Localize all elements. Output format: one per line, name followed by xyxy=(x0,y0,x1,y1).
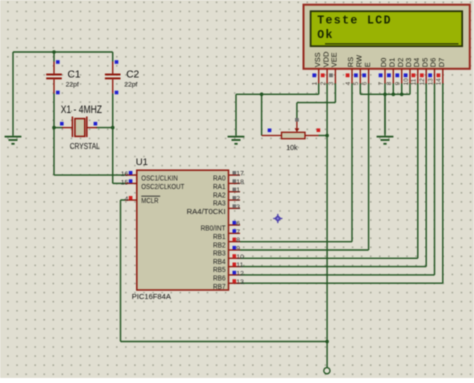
svg-text:2: 2 xyxy=(320,81,327,85)
svg-text:14: 14 xyxy=(436,78,443,85)
svg-text:4: 4 xyxy=(125,196,129,203)
svg-text:C2: C2 xyxy=(126,70,139,81)
svg-text:12: 12 xyxy=(419,78,426,85)
svg-text:10k: 10k xyxy=(286,145,298,152)
svg-text:22pf: 22pf xyxy=(124,82,137,89)
svg-text:7: 7 xyxy=(378,81,385,85)
svg-text:OSC2/CLKOUT: OSC2/CLKOUT xyxy=(141,182,185,191)
svg-text:1: 1 xyxy=(312,81,319,85)
svg-text:13: 13 xyxy=(427,78,434,85)
svg-text:8: 8 xyxy=(386,81,393,85)
svg-text:11: 11 xyxy=(411,78,418,85)
svg-text:C1: C1 xyxy=(68,70,81,81)
svg-text:4: 4 xyxy=(345,81,352,85)
svg-text:RB7: RB7 xyxy=(213,282,226,291)
svg-text:2: 2 xyxy=(236,196,240,203)
svg-text:7: 7 xyxy=(236,229,240,236)
svg-text:E: E xyxy=(363,62,372,67)
svg-text:12: 12 xyxy=(236,270,244,277)
svg-text:17: 17 xyxy=(236,171,244,178)
svg-text:D7: D7 xyxy=(437,58,446,67)
svg-text:VEE: VEE xyxy=(330,52,339,67)
svg-text:13: 13 xyxy=(236,279,244,286)
svg-text:3: 3 xyxy=(328,81,335,85)
svg-text:3: 3 xyxy=(236,204,240,211)
svg-text:18: 18 xyxy=(236,179,244,186)
svg-text:9: 9 xyxy=(236,245,240,252)
svg-text:11: 11 xyxy=(236,262,243,269)
svg-text:5: 5 xyxy=(353,81,360,85)
svg-text:Teste LCD: Teste LCD xyxy=(317,14,392,27)
svg-text:6: 6 xyxy=(361,81,368,85)
svg-text:6: 6 xyxy=(236,221,240,228)
svg-text:U1: U1 xyxy=(136,157,148,168)
svg-text:RA4/T0CKI: RA4/T0CKI xyxy=(187,207,226,216)
svg-text:PIC16F84A: PIC16F84A xyxy=(132,292,172,301)
svg-text:16: 16 xyxy=(121,171,129,178)
svg-text:8: 8 xyxy=(236,237,240,244)
svg-text:9: 9 xyxy=(395,81,402,85)
svg-text:CRYSTAL: CRYSTAL xyxy=(70,142,101,151)
svg-text:10: 10 xyxy=(236,254,244,261)
svg-text:15: 15 xyxy=(121,179,129,186)
svg-text:10: 10 xyxy=(403,78,410,85)
svg-text:22pf: 22pf xyxy=(66,82,79,89)
svg-text:X1 - 4MHZ: X1 - 4MHZ xyxy=(61,104,103,116)
svg-text:MCLR: MCLR xyxy=(141,196,158,205)
svg-text:Ok: Ok xyxy=(317,29,334,42)
svg-text:1: 1 xyxy=(236,187,240,194)
